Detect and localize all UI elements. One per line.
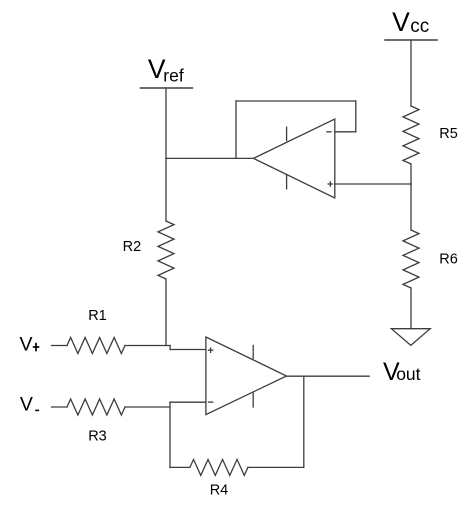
svg-text:R5: R5 bbox=[439, 126, 458, 142]
svg-text:R6: R6 bbox=[439, 252, 458, 268]
wire feedback top bbox=[236, 100, 356, 102]
svg-text:V: V bbox=[20, 394, 33, 416]
wire junction to R2 bbox=[165, 158, 167, 221]
wire R4 to feedback vertical bbox=[248, 466, 304, 468]
wire V+ lead bbox=[52, 345, 68, 347]
wire U2 output bbox=[287, 375, 370, 377]
wire node C vertical bbox=[169, 402, 171, 467]
wire feedback left vertical bbox=[235, 101, 237, 158]
wire R1 to node B bbox=[125, 345, 170, 347]
svg-text:R2: R2 bbox=[123, 239, 142, 255]
power Vcc terminal bar bbox=[385, 39, 437, 41]
op-amp U1 bbox=[254, 119, 335, 198]
power Vref terminal bar bbox=[141, 87, 193, 89]
wire feedback right vertical bbox=[355, 101, 357, 132]
wire feedback down vertical bbox=[303, 376, 305, 467]
wire node A to R6 bbox=[410, 184, 412, 230]
svg-text:R3: R3 bbox=[88, 429, 107, 445]
wire U1 noninverting to node A bbox=[335, 183, 411, 185]
svg-text:out: out bbox=[396, 364, 420, 384]
resistor R5 bbox=[403, 106, 419, 164]
svg-text:ref: ref bbox=[163, 66, 184, 86]
svg-text:V: V bbox=[392, 7, 410, 37]
wire R2 to node B bbox=[165, 279, 167, 346]
ground bbox=[391, 329, 430, 346]
wire U1 inverting stub bbox=[335, 131, 356, 133]
wire R6 to ground bbox=[410, 288, 412, 329]
wire Vcc to R5 bbox=[410, 40, 412, 106]
wire node C to U2 inverting input bbox=[170, 401, 206, 403]
wire R3 to node C bbox=[125, 406, 170, 408]
wire Vref to junction bbox=[165, 88, 167, 158]
resistor R1 bbox=[67, 338, 125, 354]
wire R5 to node A bbox=[410, 164, 412, 184]
wire V- lead bbox=[52, 406, 68, 408]
svg-text:R4: R4 bbox=[210, 482, 229, 498]
wire U1 output to Vref line bbox=[166, 157, 254, 159]
resistor R4 bbox=[190, 459, 248, 475]
svg-text:R1: R1 bbox=[88, 308, 107, 324]
resistor R2 bbox=[158, 221, 174, 279]
svg-text:cc: cc bbox=[410, 16, 429, 37]
resistor R6 bbox=[403, 230, 419, 288]
op-amp U2 bbox=[206, 337, 287, 415]
wire node C to R4 bbox=[170, 466, 190, 468]
svg-text:V: V bbox=[20, 333, 33, 355]
wire jog to U2 noninverting input bbox=[169, 346, 171, 350]
resistor R3 bbox=[67, 399, 125, 415]
